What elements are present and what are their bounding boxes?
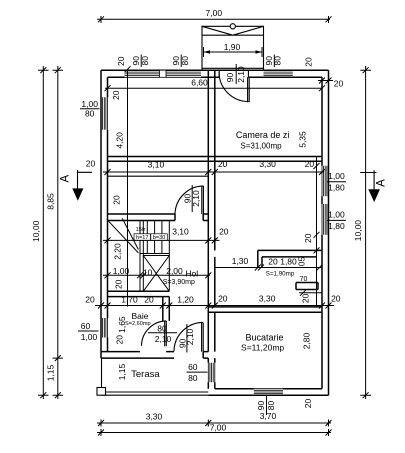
wall bottom inner — [215, 388, 322, 390]
svg-text:20: 20 — [331, 293, 341, 303]
window bar kitchen bottom — [266, 396, 268, 415]
svg-text:80: 80 — [85, 109, 95, 119]
svg-text:80: 80 — [140, 56, 150, 66]
svg-text:2,10: 2,10 — [236, 66, 246, 83]
stair text boxes — [134, 234, 151, 240]
svg-text:10,00: 10,00 — [31, 220, 41, 242]
svg-text:10: 10 — [143, 267, 153, 277]
svg-text:80: 80 — [157, 324, 167, 334]
wall top outer — [101, 69, 329, 71]
window W6 right upper — [322, 166, 329, 197]
svg-text:1,80: 1,80 — [280, 257, 297, 267]
dim kitchen top line — [204, 303, 334, 309]
window W9 terrace-kitchen — [208, 363, 215, 383]
door D3 bath leaf — [165, 321, 167, 346]
entrance label bar — [235, 64, 237, 84]
svg-text:10,00: 10,00 — [353, 220, 363, 242]
chain line vertical left interior — [127, 69, 129, 306]
svg-text:90: 90 — [256, 401, 266, 411]
svg-text:2,20: 2,20 — [113, 243, 123, 260]
svg-text:05: 05 — [296, 257, 306, 267]
svg-text:70: 70 — [300, 276, 308, 283]
window bar terrace — [187, 371, 208, 373]
wall closet left — [258, 250, 262, 267]
svg-text:20: 20 — [86, 159, 96, 169]
stair shaft X box — [143, 256, 169, 292]
dim bath line — [95, 303, 218, 309]
svg-text:1,80: 1,80 — [328, 221, 345, 231]
window W7 right lower — [322, 204, 329, 235]
wall terrace top with door openings — [101, 352, 208, 359]
porch roof band — [202, 26, 264, 35]
svg-text:b=30: b=30 — [153, 235, 166, 241]
window W2 top — [166, 70, 201, 77]
dim hall line — [103, 272, 211, 278]
closet mini dim line — [299, 290, 322, 296]
dim 10,00 right — [360, 66, 371, 399]
terrace bottom edge — [101, 392, 208, 395]
svg-text:Baie: Baie — [131, 311, 148, 321]
svg-text:20: 20 — [303, 233, 313, 243]
svg-text:1,65: 1,65 — [117, 316, 127, 333]
svg-text:7,00: 7,00 — [206, 8, 223, 18]
wall right outer — [328, 70, 330, 395]
svg-text:20: 20 — [116, 56, 126, 66]
wall hall top with door jambs — [108, 214, 209, 221]
door D1 entrance arc — [219, 72, 249, 102]
window bar top W3 — [273, 55, 275, 68]
terrace corner column — [97, 388, 106, 396]
closet step — [296, 283, 318, 290]
dim 3,30 3,70 bottom — [97, 420, 332, 427]
svg-text:20: 20 — [218, 159, 228, 169]
stairs landing edge — [140, 254, 169, 256]
svg-text:A: A — [60, 175, 72, 183]
door D3 bath arc — [142, 321, 167, 346]
dim 3,10 3,30 line mid — [103, 169, 325, 175]
terrace left edge — [101, 358, 103, 392]
svg-text:8,85: 8,85 — [45, 193, 55, 210]
svg-text:80: 80 — [273, 56, 283, 66]
svg-text:3,30: 3,30 — [259, 293, 276, 303]
window W8 kitchen bottom — [254, 389, 283, 396]
svg-text:1,15: 1,15 — [117, 363, 127, 380]
svg-text:80: 80 — [180, 56, 190, 66]
stairs lower flight break — [107, 218, 139, 253]
porch slab edge — [202, 67, 264, 69]
svg-text:15tr: 15tr — [136, 227, 146, 233]
svg-text:3,70: 3,70 — [260, 411, 277, 421]
door D2 hall arc — [175, 186, 203, 215]
svg-text:Hol: Hol — [185, 268, 198, 278]
wall bottom outer — [208, 394, 328, 396]
wall divider living room — [108, 157, 323, 162]
door D2 hall leaf — [202, 186, 204, 214]
svg-text:Terasa: Terasa — [131, 369, 160, 380]
dim 3,10 stairs line — [103, 237, 220, 243]
wall right inner — [321, 77, 323, 388]
dim 1,90 porch — [204, 47, 263, 57]
svg-text:1,00: 1,00 — [328, 171, 345, 181]
svg-text:20: 20 — [111, 195, 121, 205]
window bar top W1 — [140, 55, 142, 68]
svg-text:20: 20 — [219, 227, 229, 237]
svg-text:20: 20 — [268, 257, 278, 267]
svg-text:2,80: 2,80 — [301, 332, 311, 349]
svg-text:1,00: 1,00 — [328, 210, 345, 220]
svg-text:1,00: 1,00 — [81, 99, 98, 109]
window bar left W5 — [78, 330, 99, 332]
svg-text:S=2,60mp: S=2,60mp — [125, 321, 151, 327]
stairs treads — [147, 221, 162, 254]
svg-text:1,80: 1,80 — [328, 183, 345, 193]
svg-text:Bucatarie: Bucatarie — [245, 332, 283, 342]
window W3 top — [264, 70, 293, 77]
svg-text:80: 80 — [266, 401, 276, 411]
svg-text:3,10: 3,10 — [172, 227, 189, 237]
door D4 terrace arc — [174, 322, 203, 351]
svg-text:1,00: 1,00 — [81, 332, 98, 342]
svg-text:80: 80 — [188, 373, 198, 383]
svg-text:60: 60 — [81, 321, 91, 331]
svg-text:20: 20 — [85, 295, 95, 305]
window bar left W4 — [80, 108, 100, 110]
wall kitchen top — [208, 307, 322, 312]
svg-text:5,35: 5,35 — [297, 131, 307, 148]
svg-text:20: 20 — [303, 57, 313, 67]
svg-text:20: 20 — [303, 399, 313, 409]
svg-text:6,60: 6,60 — [191, 78, 208, 88]
window W1 top — [125, 70, 160, 77]
svg-text:20: 20 — [218, 293, 228, 303]
svg-text:1,90: 1,90 — [224, 42, 241, 52]
bath door label bar — [148, 332, 177, 334]
svg-text:20: 20 — [334, 78, 344, 88]
dim closet line — [214, 265, 323, 271]
svg-text:3,30: 3,30 — [146, 412, 163, 422]
wall center vertical — [208, 70, 215, 351]
chain line vertical right interior — [314, 157, 320, 307]
door D1 entrance leaf — [248, 77, 250, 102]
svg-text:20: 20 — [115, 335, 125, 345]
dim 7,00 bottom — [97, 429, 332, 436]
svg-text:h=17: h=17 — [136, 235, 149, 241]
svg-text:S=11,20mp: S=11,20mp — [241, 342, 284, 352]
porch circle — [230, 24, 235, 29]
svg-text:1,20: 1,20 — [177, 295, 194, 305]
window bar right W7 — [327, 219, 346, 221]
svg-text:60: 60 — [188, 362, 198, 372]
door D1 jambs — [219, 70, 248, 77]
porch outline — [202, 26, 264, 70]
wall hall bottom — [108, 291, 170, 296]
window W5 left bath — [101, 318, 108, 338]
window bar top W2 — [180, 55, 182, 68]
window W4 left living — [101, 97, 108, 129]
wall left outer — [100, 70, 102, 358]
section marker right — [360, 170, 376, 189]
stairs side walls — [140, 221, 169, 292]
svg-text:4,20: 4,20 — [115, 132, 125, 149]
window bar right W6 — [327, 181, 346, 183]
dim 10,00 left outer — [38, 66, 49, 399]
svg-text:20: 20 — [144, 295, 154, 305]
svg-text:90: 90 — [225, 73, 235, 83]
svg-text:Camera de zi: Camera de zi — [236, 130, 290, 140]
svg-text:A: A — [376, 179, 388, 187]
svg-text:3,10: 3,10 — [148, 160, 165, 170]
wall bath right — [163, 297, 170, 321]
svg-text:20: 20 — [111, 90, 121, 100]
svg-text:20: 20 — [301, 293, 311, 303]
svg-text:1,00: 1,00 — [113, 266, 130, 276]
upper landing edge line — [108, 175, 209, 177]
door D4 terrace leaf — [202, 323, 204, 352]
svg-text:20: 20 — [305, 159, 315, 169]
svg-text:S=31,00mp: S=31,00mp — [240, 141, 282, 150]
tick chain top — [125, 66, 131, 72]
svg-text:2,10: 2,10 — [155, 334, 172, 344]
dim 8,85 1,15 left inner — [53, 66, 64, 399]
svg-text:S=3,90mp: S=3,90mp — [163, 279, 195, 286]
svg-text:1,70: 1,70 — [121, 295, 138, 305]
svg-text:2,00: 2,00 — [166, 266, 183, 276]
wall living bottom right section — [258, 250, 322, 257]
svg-text:20: 20 — [113, 279, 123, 289]
porch dim arrowheads — [204, 50, 211, 54]
window pier box — [160, 70, 167, 77]
svg-text:1,15: 1,15 — [45, 364, 55, 381]
wall top inner — [108, 76, 323, 78]
wall terrace-kitchen — [208, 358, 215, 389]
svg-text:S=1,90mp: S=1,90mp — [266, 270, 295, 277]
section marker left — [78, 170, 93, 188]
dim 20 top right corner — [318, 78, 333, 84]
svg-text:1,30: 1,30 — [232, 256, 249, 266]
svg-text:7,00: 7,00 — [210, 423, 227, 433]
svg-text:3,30: 3,30 — [259, 159, 276, 169]
dim 6,60 line — [105, 85, 326, 91]
dim 7,00 top — [97, 16, 332, 23]
wall left inner — [107, 77, 109, 351]
